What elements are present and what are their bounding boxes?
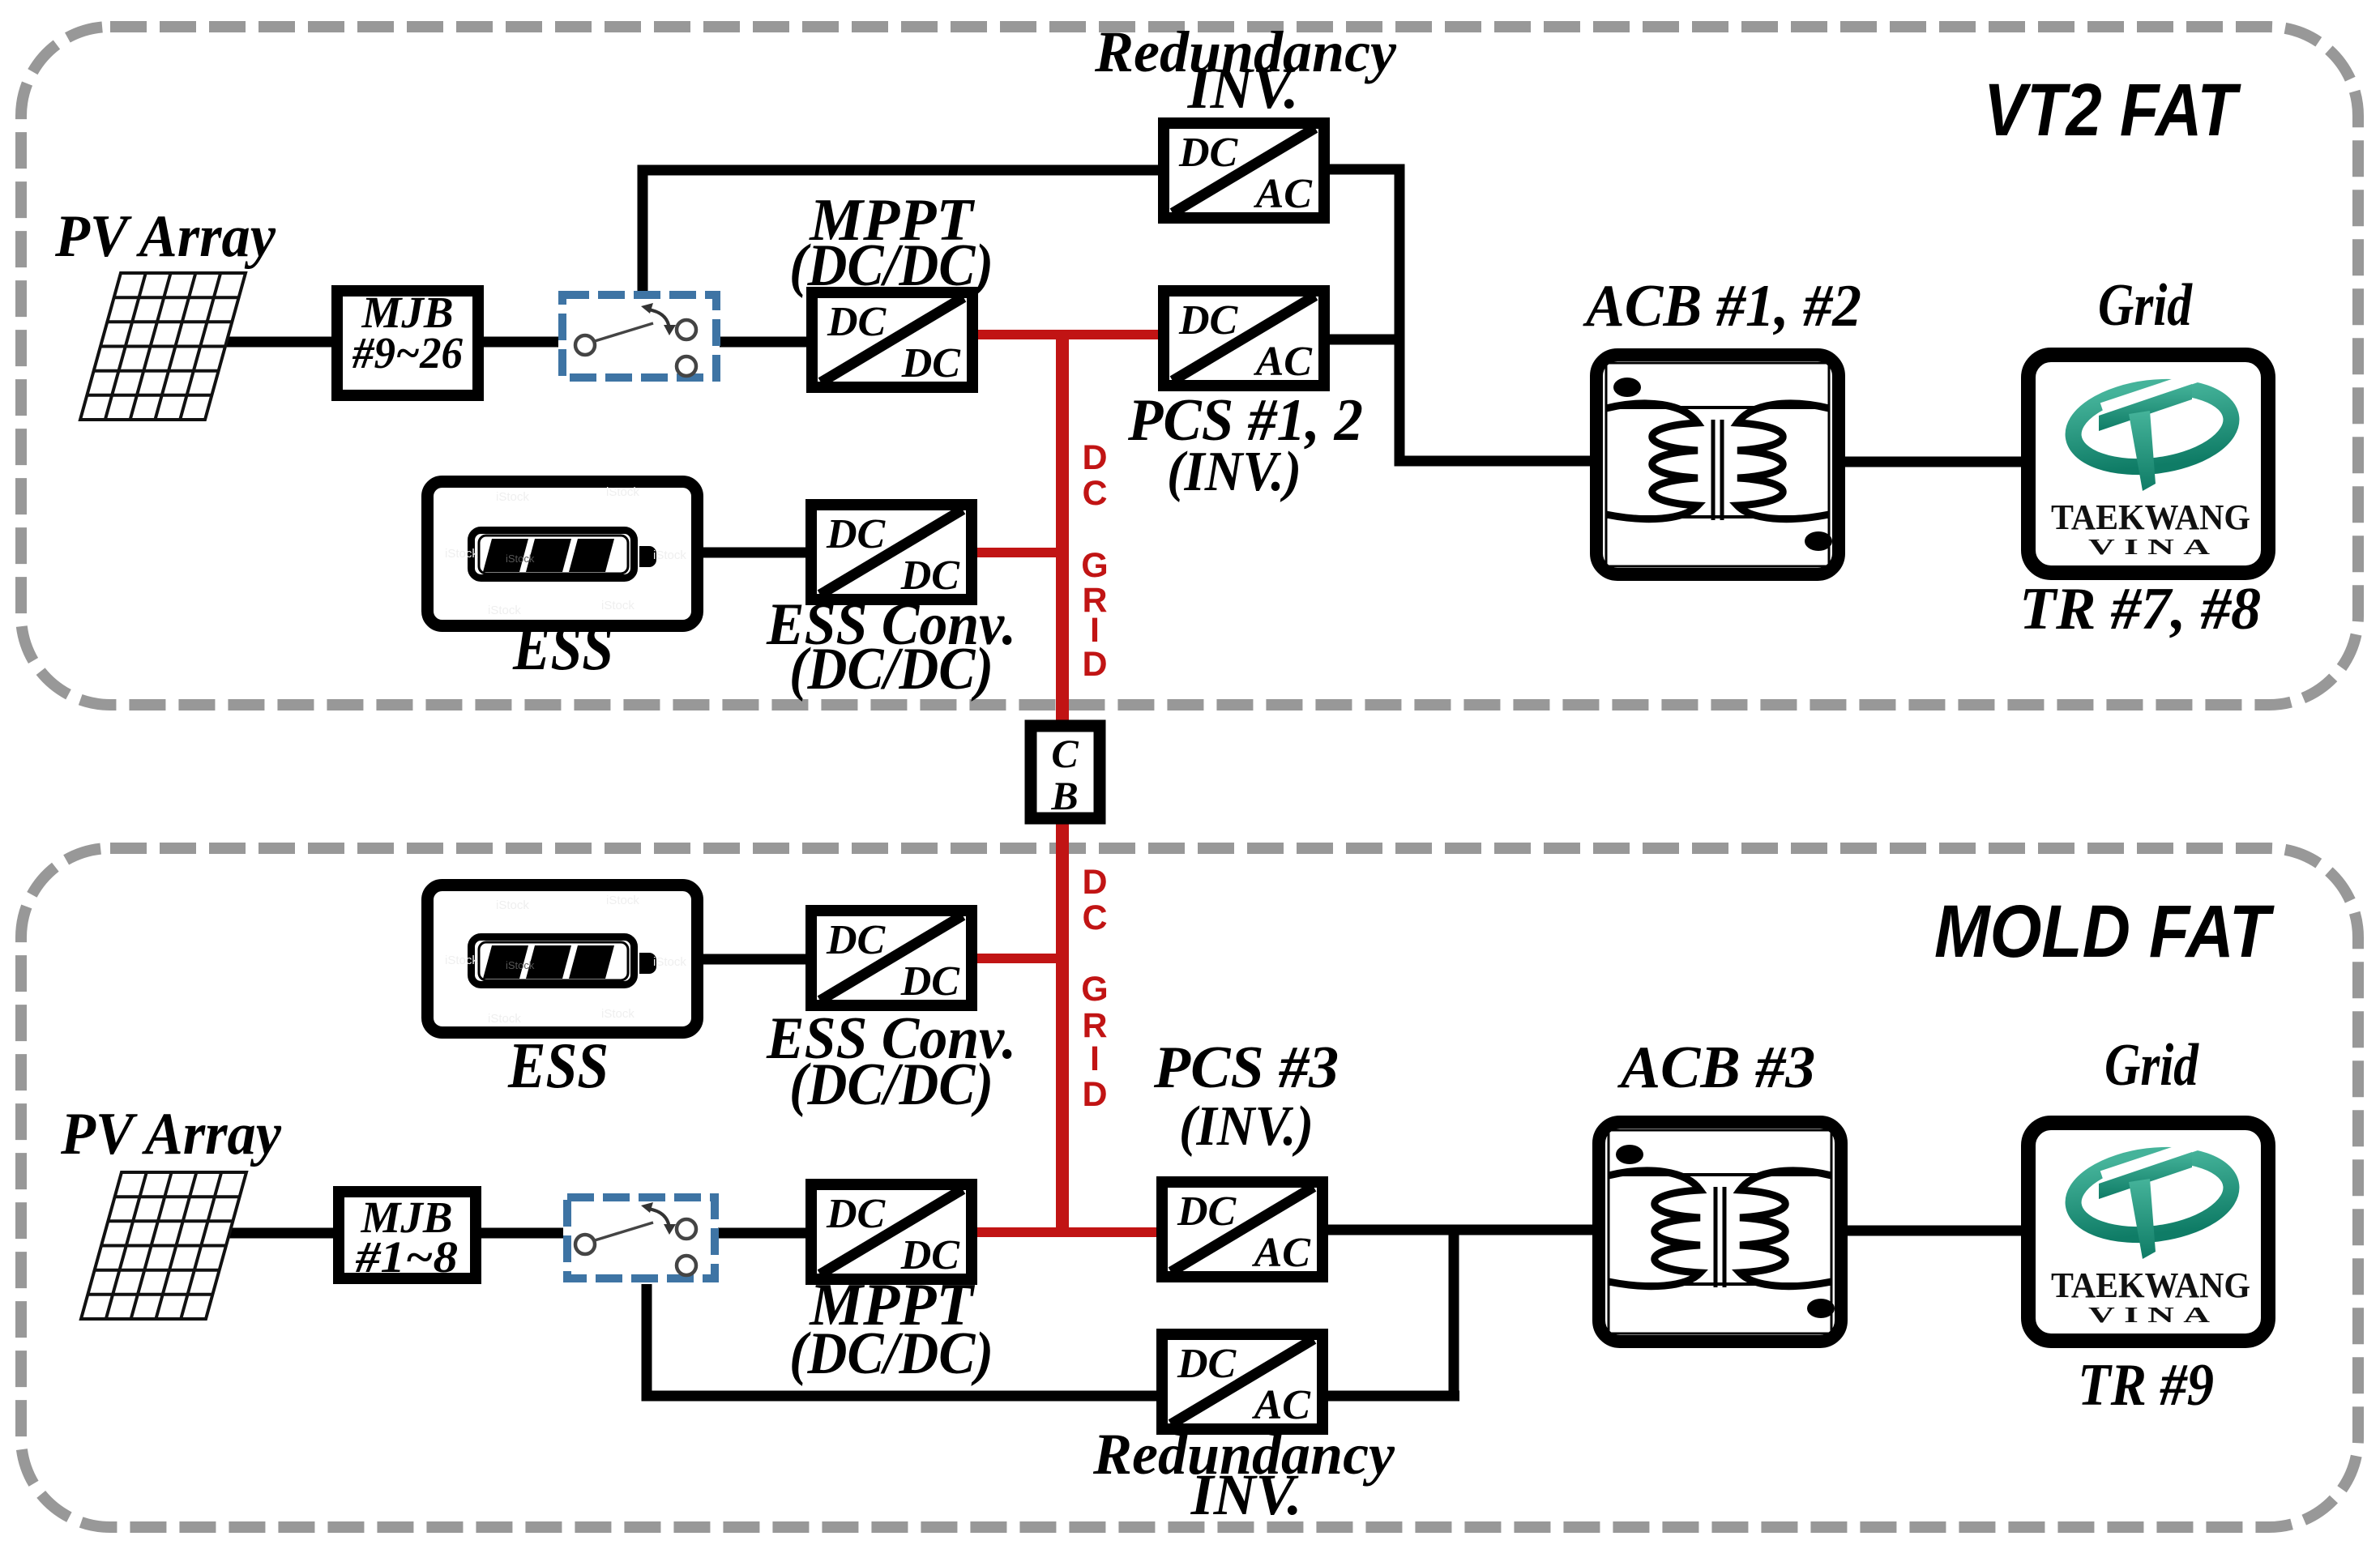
Redundancy INV. label 2 (1092, 1422, 1395, 1527)
svg-text:DC: DC (826, 511, 887, 557)
svg-text:DC: DC (1177, 1341, 1237, 1387)
wire switch to MPPT (720, 337, 808, 348)
switch box (blue dashed) (562, 295, 716, 378)
MPPT converter U1 (DC/DC) (812, 292, 972, 387)
wire ACB to Grid (1845, 457, 2022, 467)
svg-text:iStock: iStock (496, 898, 529, 912)
wire redundancy inverter output down to ACB (1325, 169, 1590, 461)
svg-text:DC: DC (900, 958, 961, 1005)
svg-text:iStock: iStock (496, 490, 529, 504)
svg-text:TR #7, #8: TR #7, #8 (2019, 576, 2261, 642)
WIRES-BOTTOM (229, 959, 2021, 1396)
wire MJB 2 to switch 2 (481, 1228, 563, 1239)
ESS box (428, 482, 698, 626)
DC GRID label top (1081, 438, 1108, 684)
PCS #3 inverter U7 (DC/AC) (1162, 1182, 1322, 1277)
svg-text:iStock: iStock (606, 485, 639, 499)
svg-text:#1~8: #1~8 (355, 1232, 458, 1282)
svg-text:(DC/DC): (DC/DC) (789, 1321, 993, 1387)
svg-text:DC: DC (826, 1191, 887, 1237)
ACB transformer #1,#2 (1596, 355, 1839, 574)
svg-text:DC: DC (826, 917, 887, 963)
PCS #1, 2 (INV.) label (1127, 387, 1363, 503)
svg-text:VT2 FAT: VT2 FAT (1984, 69, 2241, 151)
ESS 2 box (428, 885, 698, 1033)
wire red MPPT 2 to PCS 3 (975, 1227, 1159, 1237)
MJB #1~8 box (339, 1192, 476, 1282)
svg-text:iStock: iStock (445, 547, 478, 561)
wire PV array to MJB (225, 337, 331, 348)
MOLD FAT section dashed border (21, 848, 2358, 1527)
wire red bus vertical lower (1056, 818, 1069, 1237)
svg-text:ESS: ESS (512, 612, 613, 684)
PCS #3 (INV.) label (1153, 1035, 1339, 1158)
svg-text:iStock: iStock (488, 604, 521, 617)
Redundancy INV. label (1094, 19, 1397, 121)
svg-text:(INV.): (INV.) (1179, 1095, 1314, 1158)
wire ESS 2 to ESS converter 2 (702, 954, 808, 965)
Grid box 2 with TAEKWANG VINA logo (2028, 1123, 2268, 1341)
WIRES-TOP (225, 169, 2022, 553)
svg-text:iStock: iStock (445, 954, 478, 967)
wire PCS output to vertical junction (1325, 335, 1404, 345)
svg-text:DC: DC (1178, 297, 1239, 344)
svg-text:I: I (1090, 611, 1100, 650)
DC GRID red bus (975, 330, 1159, 1237)
svg-text:DC: DC (1177, 1188, 1237, 1235)
wire redundancy 2 output (1326, 1391, 1459, 1402)
PCS #1,2 inverter U3 (DC/AC) (1164, 291, 1324, 386)
svg-text:PV Array: PV Array (60, 1101, 282, 1167)
wire switch top to redundancy inverter (643, 170, 1158, 295)
Grid box with TAEKWANG VINA logo (2028, 355, 2268, 573)
svg-text:iStock: iStock (606, 894, 639, 907)
svg-text:INV.: INV. (1187, 56, 1299, 121)
svg-text:AC: AC (1252, 1230, 1312, 1276)
svg-text:iStock: iStock (653, 548, 686, 562)
wire MJB to switch (484, 337, 558, 348)
svg-text:iStock: iStock (488, 1012, 521, 1026)
svg-text:G: G (1081, 546, 1108, 585)
svg-text:PCS #3: PCS #3 (1153, 1035, 1339, 1101)
svg-text:PV Array: PV Array (54, 203, 276, 270)
watermark texture ESS 2 (445, 894, 686, 1026)
wire PCS 3 output to ACB 3 (1326, 1225, 1592, 1235)
PV array panel (80, 273, 246, 420)
ACB transformer #3 (1599, 1122, 1841, 1342)
svg-text:DC: DC (901, 340, 962, 386)
wire ESS to ESS converter (703, 548, 808, 558)
svg-text:D: D (1082, 645, 1107, 684)
svg-text:C: C (1082, 474, 1107, 513)
svg-text:D: D (1082, 863, 1107, 902)
wire red MPPT to PCS 1 (975, 330, 1158, 339)
svg-text:iStock: iStock (601, 1007, 635, 1021)
svg-text:DC: DC (827, 299, 887, 345)
svg-text:iStock: iStock (506, 553, 535, 565)
MPPT (DC/DC) label 2 (789, 1272, 993, 1387)
svg-text:iStock: iStock (506, 959, 535, 971)
svg-text:B: B (1050, 773, 1078, 818)
svg-text:(DC/DC): (DC/DC) (789, 636, 993, 702)
ESS converter 2 U5 (DC/DC) (811, 911, 972, 1005)
svg-text:D: D (1082, 1075, 1107, 1114)
wire ACB 3 to Grid 2 (1845, 1226, 2021, 1236)
svg-text:AC: AC (1254, 171, 1314, 217)
battery icon 2 (472, 937, 657, 985)
redundancy inverter 2 U8 (DC/AC) (1162, 1334, 1322, 1429)
svg-text:D: D (1082, 438, 1107, 477)
svg-text:ACB #3: ACB #3 (1617, 1035, 1816, 1101)
redundancy inverter U2 (DC/AC) (1164, 123, 1324, 218)
wire switch 2 to MPPT 2 (718, 1228, 808, 1239)
svg-text:Grid: Grid (2098, 272, 2193, 339)
wire red ESS converter 2 to bus (975, 954, 1069, 963)
DC GRID label bottom (1081, 863, 1108, 1114)
svg-text:C: C (1082, 898, 1107, 937)
svg-text:Grid: Grid (2104, 1032, 2199, 1099)
svg-text:G: G (1081, 970, 1108, 1009)
ESS Conv. (DC/DC) label (766, 591, 1016, 702)
svg-text:#9~26: #9~26 (352, 328, 463, 378)
PV array panel 2 (81, 1172, 246, 1319)
svg-text:(DC/DC): (DC/DC) (789, 1052, 993, 1118)
battery icon (472, 531, 657, 578)
svg-text:C: C (1051, 731, 1079, 776)
svg-text:(INV.): (INV.) (1167, 441, 1301, 503)
svg-text:ESS: ESS (507, 1031, 609, 1102)
CB circuit breaker box (1031, 726, 1100, 818)
svg-text:iStock: iStock (601, 599, 635, 612)
svg-text:INV.: INV. (1190, 1462, 1302, 1527)
wire red bus vertical upper (1056, 330, 1069, 726)
switch box 2 (blue dashed) (567, 1197, 715, 1278)
wire switch 2 bottom to redundancy inverter 2 (647, 1284, 1159, 1396)
svg-text:AC: AC (1254, 339, 1314, 385)
MPPT converter 2 U6 (DC/DC) (811, 1184, 972, 1279)
wire PV array 2 to MJB 2 (229, 1228, 333, 1239)
VT2 FAT section dashed border (21, 27, 2358, 705)
ESS Conv. (DC/DC) label 2 (766, 1005, 1016, 1118)
wire red ESS converter to bus (975, 548, 1069, 557)
MPPT (DC/DC) label (789, 187, 993, 299)
watermark texture ESS 1 (445, 485, 686, 617)
wire junction vertical to redundancy 2 output (1449, 1225, 1459, 1396)
svg-text:I: I (1090, 1039, 1100, 1078)
ESS converter U4 (DC/DC) (811, 505, 972, 600)
svg-text:ACB #1, #2: ACB #1, #2 (1583, 273, 1861, 339)
svg-text:iStock: iStock (653, 955, 686, 969)
MJB #9~26 box (337, 288, 478, 395)
svg-text:TR #9: TR #9 (2078, 1352, 2214, 1419)
svg-text:DC: DC (1178, 130, 1239, 176)
svg-text:MOLD FAT: MOLD FAT (1934, 890, 2275, 973)
